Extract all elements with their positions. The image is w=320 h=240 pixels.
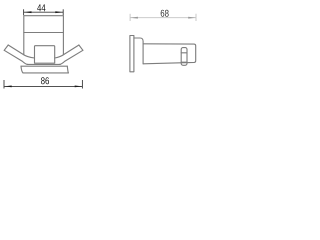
right extension tick	[81, 80, 83, 89]
arrowhead right of dim 86	[75, 86, 83, 88]
backplate mid horizontal line	[24, 32, 64, 34]
lower band left end	[21, 66, 23, 73]
capsule inner line 1	[181, 52, 187, 54]
left wing bottom edge	[4, 50, 28, 64]
label 68	[161, 10, 169, 17]
lower band top edge	[21, 65, 67, 67]
right wing bottom edge	[59, 50, 83, 64]
dimension line 44	[24, 11, 63, 13]
hook tip capsule	[181, 48, 187, 66]
arm outline	[143, 44, 196, 64]
backplate top edge	[24, 15, 64, 17]
arrowhead right of dim 44	[55, 11, 63, 13]
right extension tick	[195, 14, 197, 21]
center square post	[35, 46, 55, 64]
backplate left edge	[23, 16, 25, 55]
left extension tick	[129, 14, 131, 21]
arrowhead right of dim 68	[188, 17, 196, 19]
wing bottom flat line under square	[27, 63, 60, 65]
mounting flange behind plate	[134, 38, 143, 64]
lower band right end	[67, 66, 68, 73]
left extension tick	[23, 9, 25, 15]
arrowhead left of dim 68	[130, 17, 138, 19]
label 44	[37, 4, 45, 11]
lower band bottom edge	[23, 72, 69, 74]
arrowhead left of dim 86	[4, 86, 12, 88]
wall plate	[130, 36, 134, 72]
left wing tip cap	[4, 45, 8, 50]
dimension line 68	[130, 17, 196, 19]
label 86	[41, 77, 49, 84]
left wing top edge	[8, 45, 34, 58]
right extension tick	[62, 9, 64, 15]
capsule inner line 2	[181, 61, 187, 63]
backplate right edge	[62, 16, 64, 55]
left extension tick	[3, 80, 5, 89]
arrowhead left of dim 44	[24, 11, 32, 13]
right wing top edge	[55, 45, 79, 58]
right wing tip cap	[79, 45, 83, 50]
dimension line 86	[4, 85, 82, 87]
